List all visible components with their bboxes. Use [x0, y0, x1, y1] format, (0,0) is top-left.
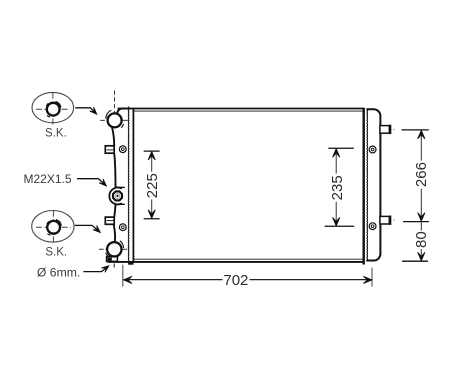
left header serration [127, 107, 130, 264]
core bottom edge (inner thin) [134, 258, 362, 260]
leader diameter 6mm [83, 268, 106, 272]
left tank wall bottom slant [114, 224, 115, 242]
right tank lower mounting pin [383, 219, 395, 221]
bottom outlet shadow arcs [106, 241, 124, 257]
callout ellipse top [32, 92, 74, 122]
dimension 702 extension lines [123, 265, 372, 287]
centerline bottom outlet horizontal [99, 248, 127, 250]
core left edge line [132, 108, 134, 263]
svg-text:80: 80 [413, 231, 430, 248]
drain boss notch top [116, 186, 125, 188]
left tank wall upper [112, 126, 114, 145]
callout top port detail [47, 102, 61, 118]
dimension 702 line [123, 279, 371, 281]
drain plug M22 octagon [113, 191, 122, 200]
left tank top wall [117, 109, 129, 114]
right tank outline [366, 109, 380, 260]
centerline top inlet vertical [114, 91, 116, 114]
left tank lower screw boss [119, 224, 126, 231]
svg-text:225: 225 [144, 173, 161, 198]
centerline bottom outlet vertical [113, 257, 115, 269]
dimension 235 extension ticks [325, 148, 355, 226]
dimension 266 extension ticks [402, 130, 429, 261]
leader M22X1.5 [77, 179, 104, 184]
leader S.K. bottom [75, 225, 98, 230]
drain boss notch bottom [116, 203, 125, 205]
core top edge (thick) [118, 108, 364, 110]
dimension 235 line [335, 148, 337, 226]
right tank lower screw boss [369, 223, 376, 230]
svg-text:235: 235 [329, 175, 346, 200]
callout bottom port detail [47, 220, 61, 236]
right header bar [363, 108, 365, 265]
centerline top inlet horizontal [100, 119, 128, 121]
top inlet port [108, 113, 122, 127]
dimension 225 line [151, 151, 153, 219]
svg-text:M22X1.5: M22X1.5 [23, 172, 71, 186]
svg-text:702: 702 [223, 272, 248, 289]
right header serration [366, 109, 369, 260]
left tank wall lower [114, 204, 115, 217]
callout bottom crosshair [36, 226, 71, 228]
svg-text:Ø 6mm.: Ø 6mm. [37, 265, 80, 279]
dimension 225 extension ticks [144, 151, 160, 219]
dimension 266 line [420, 130, 422, 222]
radiator core face [134, 108, 364, 262]
left header foot [128, 261, 133, 264]
right tank upper mounting pin [383, 128, 395, 130]
left tank upper screw boss [119, 146, 126, 153]
svg-text:266: 266 [413, 162, 430, 187]
outlet foot [107, 257, 118, 262]
drain boss bulge [109, 188, 121, 205]
dimension 80 line [420, 222, 422, 262]
svg-text:S.K.: S.K. [45, 127, 67, 139]
callout top crosshair [36, 108, 71, 110]
svg-text:S.K.: S.K. [45, 247, 67, 259]
core bottom edge (thick) [108, 261, 364, 263]
left tank lower bracket [105, 217, 114, 224]
bottom outlet port [107, 242, 121, 256]
right tank upper screw boss [369, 146, 376, 153]
leader S.K. top [75, 108, 94, 112]
left tank upper bracket [105, 146, 114, 153]
top inlet shadow arcs [106, 110, 124, 128]
core top edge (inner thin) [134, 110, 362, 112]
left tank wall middle [114, 153, 115, 187]
callout ellipse bottom [32, 211, 74, 243]
